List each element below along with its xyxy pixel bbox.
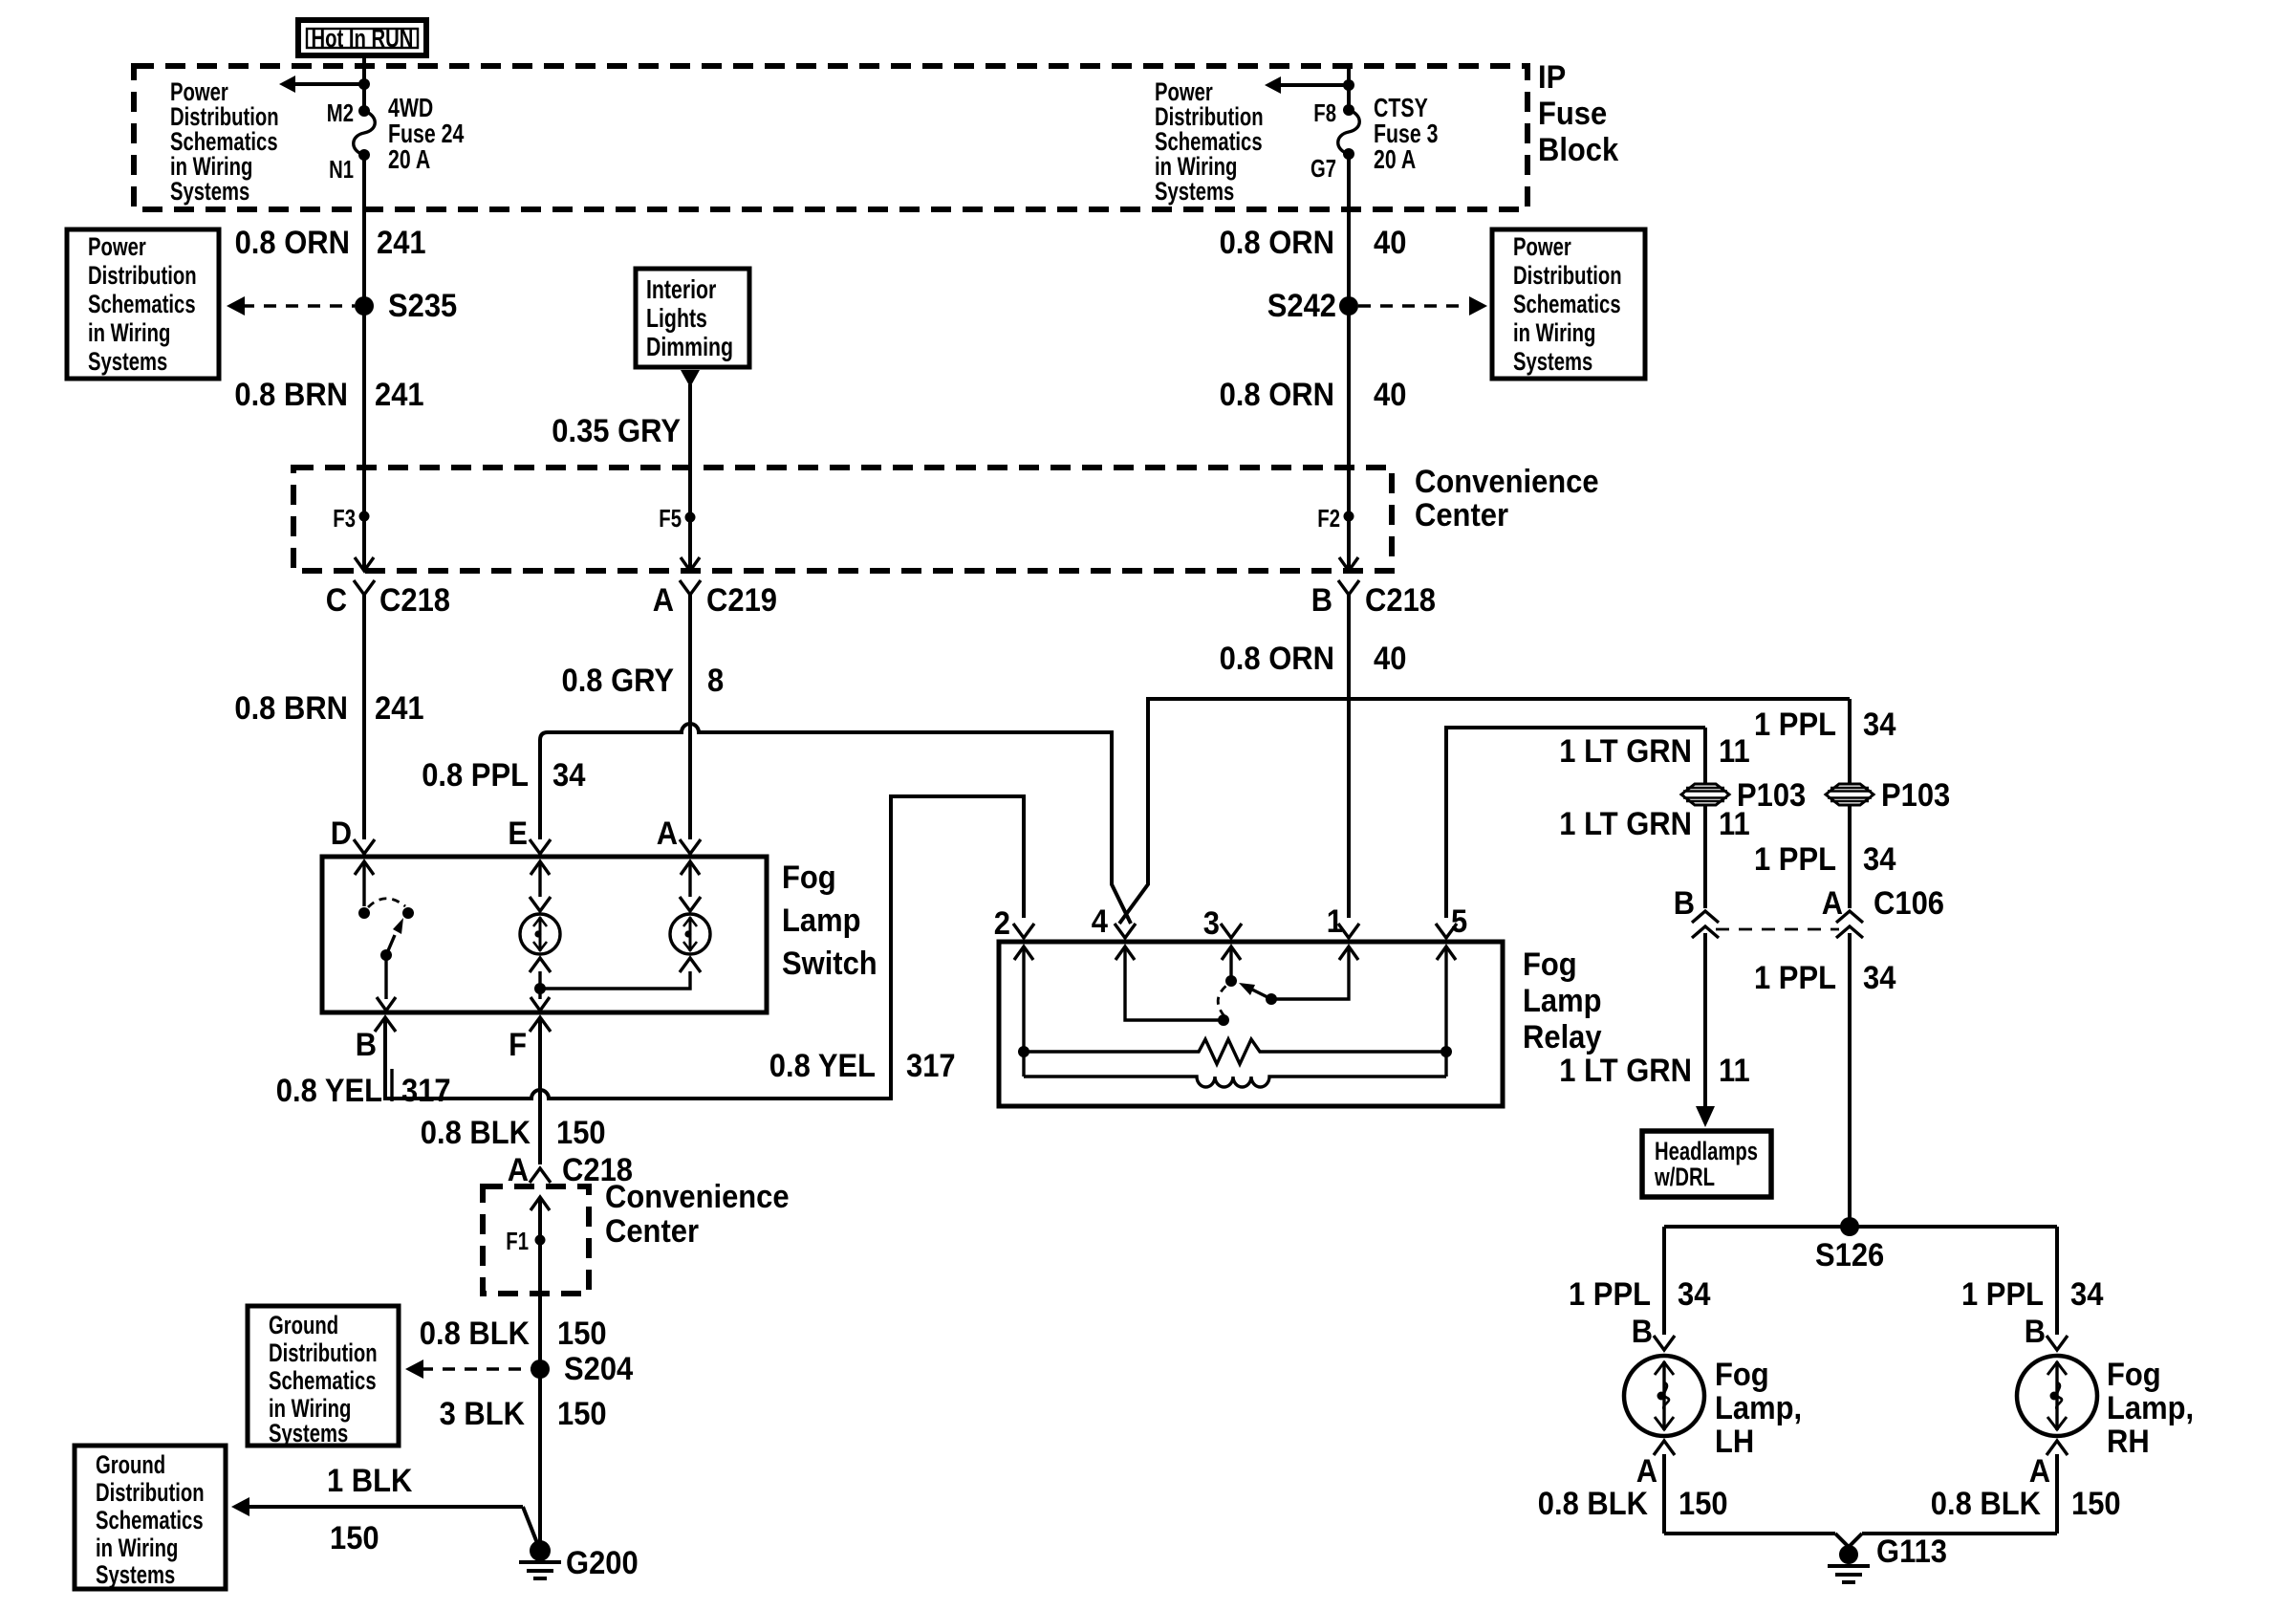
svg-text:Ground: Ground (96, 1450, 165, 1479)
svg-text:F8: F8 (1313, 98, 1336, 127)
wire fog lamp RH to ground bus (2055, 1454, 2059, 1534)
node F3 (333, 504, 369, 533)
svg-text:8: 8 (707, 663, 724, 699)
svg-text:in Wiring: in Wiring (88, 318, 170, 347)
svg-text:1 PPL: 1 PPL (1569, 1276, 1651, 1313)
svg-text:P103: P103 (1881, 777, 1950, 814)
wire C106 A down to splice S126 (1848, 933, 1852, 1227)
svg-text:150: 150 (2071, 1486, 2121, 1522)
svg-text:2: 2 (994, 905, 1010, 942)
connector pin 4 of fog lamp relay (1092, 903, 1136, 940)
svg-text:0.8 YEL: 0.8 YEL (769, 1048, 876, 1084)
switch throw contact dot (402, 907, 414, 919)
wire label 1 PPL 34 (middle) (1754, 841, 1895, 878)
svg-text:11: 11 (1719, 806, 1750, 842)
relay coil (1024, 1077, 1446, 1087)
svg-text:40: 40 (1374, 225, 1406, 261)
svg-text:S204: S204 (564, 1351, 633, 1387)
node F5 (659, 504, 695, 533)
svg-text:F2: F2 (1317, 504, 1340, 533)
wire fog lamp LH to ground bus (1662, 1454, 1666, 1534)
wire PPL from P103 to C106 A (1848, 806, 1852, 908)
svg-text:1 PPL: 1 PPL (1754, 841, 1836, 878)
wire label 1 LT GRN 11 (middle) (1559, 806, 1749, 842)
connector pin A of fog lamp LH (1636, 1441, 1675, 1490)
wire 1 LT GRN riser down to P103 (1703, 728, 1707, 783)
svg-text:Convenience: Convenience (1415, 464, 1599, 500)
svg-text:150: 150 (557, 1316, 607, 1352)
svg-text:1 PPL: 1 PPL (1754, 960, 1836, 996)
wire label 1 LT GRN 11 (upper) (1559, 733, 1749, 770)
relay armature with arrow (1239, 983, 1277, 1005)
arrow from Interior Lights Dimming (681, 370, 700, 387)
wire C218 C down to switch pin D (362, 595, 366, 839)
connector pin B of fog lamp RH (2025, 1314, 2068, 1350)
svg-text:F3: F3 (333, 504, 356, 533)
wire N1 down to S235 (362, 155, 366, 571)
wire label 0.8 BLK 150 (421, 1115, 606, 1151)
svg-text:Distribution: Distribution (1513, 261, 1622, 290)
wire label 0.8 ORN 40 (to relay) (1220, 641, 1407, 677)
svg-text:Distribution: Distribution (88, 261, 197, 290)
connector pin D of fog lamp switch (331, 816, 375, 854)
svg-text:Systems: Systems (269, 1419, 348, 1447)
svg-text:A: A (657, 816, 678, 852)
svg-text:C219: C219 (706, 582, 777, 619)
svg-text:G113: G113 (1876, 1534, 1947, 1570)
value label CTSY Fuse 3 20 A (1374, 93, 1438, 174)
wire pin F down to C218 A (538, 1017, 542, 1164)
svg-text:Fog: Fog (1715, 1357, 1769, 1393)
connector C218 pin C (326, 580, 450, 619)
connector pin 3 of fog lamp relay (1203, 905, 1242, 942)
note Power Distribution Schematics in Wiring Systems (left, in fuse block) (170, 77, 279, 206)
wire relay pin 5 up and right to LT GRN riser (1446, 728, 1705, 918)
svg-text:B: B (1311, 582, 1332, 619)
note box Power Distribution Schematics in Wiring Systems (at S242) (1492, 229, 1645, 379)
connector pin 2 of fog lamp relay (994, 905, 1034, 942)
wire 1 PPL riser down to P103 (1848, 699, 1852, 783)
svg-text:0.8 ORN: 0.8 ORN (1220, 225, 1334, 261)
note box Ground Distribution Schematics in Wiring Systems (at S204) (248, 1306, 399, 1447)
svg-text:Distribution: Distribution (96, 1478, 205, 1507)
svg-text:3 BLK: 3 BLK (440, 1396, 526, 1432)
svg-text:S235: S235 (388, 288, 457, 324)
svg-text:S126: S126 (1815, 1237, 1884, 1273)
wire label 0.8 YEL 317 (right riser) (769, 1048, 956, 1084)
arrow out of convenience center (left) (355, 557, 374, 571)
svg-text:317: 317 (906, 1048, 956, 1084)
svg-text:Lamp,: Lamp, (1715, 1390, 1802, 1426)
connector C218 pin B (1311, 580, 1436, 619)
svg-text:11: 11 (1719, 1053, 1750, 1089)
ground G113 (1828, 1534, 1947, 1582)
svg-text:N1: N1 (329, 155, 354, 184)
svg-text:150: 150 (330, 1520, 379, 1556)
connector pin B of fog lamp LH (1632, 1314, 1675, 1350)
connector pin F of fog lamp switch (below box) (509, 1017, 551, 1063)
svg-text:34: 34 (1863, 841, 1895, 878)
label box Hot In RUN (298, 20, 426, 55)
wire arm to pin B (inside), arrow down (377, 955, 396, 1011)
svg-text:0.8 PPL: 0.8 PPL (422, 757, 529, 794)
svg-text:34: 34 (1863, 707, 1895, 743)
svg-text:1 LT GRN: 1 LT GRN (1559, 1053, 1692, 1089)
connector pin 1 of fog lamp relay (1327, 903, 1359, 940)
svg-text:0.8 YEL: 0.8 YEL (276, 1073, 382, 1109)
svg-text:G200: G200 (566, 1545, 639, 1581)
wire from Hot In RUN into fuse block (362, 55, 366, 111)
wire S126 right branch down (2055, 1227, 2059, 1335)
convenience center dashed box (293, 468, 1392, 571)
svg-text:241: 241 (377, 225, 426, 261)
component label Convenience Center (ground path) (605, 1179, 790, 1250)
svg-text:0.8 BRN: 0.8 BRN (234, 690, 348, 727)
fog lamp LH (1624, 1356, 1802, 1460)
relay pin 1 terminal arrow (1339, 946, 1358, 960)
dashed reference arrow to S242 box (1358, 296, 1487, 315)
svg-text:1 PPL: 1 PPL (1754, 707, 1836, 743)
svg-text:0.8 BLK: 0.8 BLK (420, 1316, 531, 1352)
connector pin A of fog lamp RH (2029, 1441, 2068, 1490)
svg-text:317: 317 (401, 1073, 451, 1109)
svg-text:34: 34 (2070, 1276, 2103, 1313)
svg-text:Lamp: Lamp (1523, 983, 1602, 1019)
svg-text:A: A (508, 1152, 529, 1188)
svg-text:Fog: Fog (1523, 946, 1577, 983)
wire 0.35 GRY down to convenience center F5 (688, 384, 692, 571)
svg-text:in Wiring: in Wiring (96, 1534, 178, 1562)
indicator lamp (pin A branch) terminal arrow (680, 861, 701, 911)
svg-text:4: 4 (1092, 903, 1108, 940)
wire 1 BLK 150 to G200 (231, 1497, 539, 1548)
svg-text:0.8 ORN: 0.8 ORN (1220, 641, 1334, 677)
indicator lamp at pin E (520, 914, 560, 954)
connector C219 pin A (653, 580, 777, 619)
arrow to power distribution (right side of fuse block) (1265, 76, 1354, 94)
splice S126 (1815, 1217, 1884, 1273)
ground G200 (519, 1540, 639, 1581)
connector C106 pin A (1822, 885, 1944, 938)
svg-text:1 LT GRN: 1 LT GRN (1559, 806, 1692, 842)
svg-text:Schematics: Schematics (269, 1366, 377, 1395)
svg-text:in Wiring: in Wiring (1513, 318, 1595, 347)
svg-text:241: 241 (375, 690, 424, 727)
wire S126 branch to fog lamps (1662, 1227, 1666, 1335)
svg-text:Dimming: Dimming (646, 332, 733, 361)
component label Fog Lamp Relay (1523, 946, 1602, 1055)
switch contact D terminal (inside) (355, 861, 374, 919)
connector pin A of fog lamp switch (657, 816, 701, 854)
svg-text:0.8 BRN: 0.8 BRN (234, 377, 348, 413)
svg-text:Convenience: Convenience (605, 1179, 790, 1215)
note box Ground Distribution Schematics in Wiring Systems (at G200) (75, 1446, 226, 1589)
svg-text:Power: Power (1513, 232, 1571, 261)
arrow out of convenience center (right) (1339, 557, 1358, 571)
svg-text:5: 5 (1451, 903, 1467, 940)
svg-text:Switch: Switch (782, 946, 877, 982)
arrow out of convenience center (middle) (681, 557, 700, 571)
wire label 3 BLK 150 (440, 1396, 607, 1432)
svg-text:0.8 BLK: 0.8 BLK (421, 1115, 531, 1151)
svg-text:Fog: Fog (782, 859, 836, 896)
arrow into Headlamps w/DRL (1696, 1106, 1715, 1127)
svg-text:Schematics: Schematics (96, 1506, 204, 1534)
svg-text:0.8 BLK: 0.8 BLK (1538, 1486, 1649, 1522)
splice S204 (531, 1351, 633, 1387)
svg-text:G7: G7 (1310, 154, 1336, 183)
component box Headlamps w/DRL (1642, 1131, 1771, 1197)
wire C219 A down to switch pin A (688, 595, 692, 839)
svg-text:C218: C218 (1365, 582, 1436, 619)
svg-text:40: 40 (1374, 377, 1406, 413)
svg-text:Lamp: Lamp (782, 903, 861, 939)
wire 1 PPL from relay pin 4 up and right to P103 riser (1119, 699, 1850, 924)
wire label 1 PPL 34 (upper) (1754, 707, 1895, 743)
svg-text:C218: C218 (379, 582, 450, 619)
indicator lamp (pin E branch) terminal arrow (530, 861, 551, 911)
svg-text:Headlamps: Headlamps (1655, 1137, 1758, 1165)
svg-text:Schematics: Schematics (1513, 290, 1621, 318)
svg-text:C: C (326, 582, 347, 619)
dashed travel arc of switch (368, 899, 405, 907)
svg-text:Systems: Systems (170, 177, 249, 206)
dashed reference arrow to S235 box (227, 296, 355, 315)
wire label 1 LT GRN 11 (lower) (1559, 1053, 1749, 1089)
lamp E bottom connector and wire to junction (530, 958, 551, 994)
dashed travel arc of relay contact (1218, 985, 1227, 1016)
indicator lamp at pin A (670, 914, 710, 954)
svg-text:150: 150 (556, 1115, 606, 1151)
svg-text:Schematics: Schematics (88, 290, 196, 318)
wire label 0.8 GRY 8 (562, 663, 725, 699)
wire through convenience center F1 down to S204 (538, 1197, 542, 1551)
connector pin 5 of fog lamp relay (1436, 903, 1467, 940)
wire label 0.8 BRN 241 (lower) (234, 690, 423, 727)
wire G7 down through convenience center to C218 B (1347, 154, 1351, 571)
note box Power Distribution Schematics in Wiring Systems (at S235) (67, 229, 219, 379)
svg-text:w/DRL: w/DRL (1654, 1163, 1715, 1191)
svg-text:Systems: Systems (88, 347, 167, 376)
svg-text:B: B (1632, 1314, 1653, 1350)
node F2 (1317, 504, 1354, 533)
svg-text:0.8 ORN: 0.8 ORN (1220, 377, 1334, 413)
wire label 1 PPL 34 (RH) (1961, 1276, 2103, 1313)
svg-text:Systems: Systems (1155, 177, 1234, 206)
wire 0.8 YEL from pin B right to relay pin 2 riser, hops over BLK wire (385, 796, 1024, 1099)
wire top of CTSY fuse (1347, 66, 1351, 110)
svg-text:241: 241 (375, 377, 424, 413)
svg-text:1 LT GRN: 1 LT GRN (1559, 733, 1692, 770)
svg-text:C106: C106 (1874, 885, 1944, 922)
svg-text:F: F (509, 1027, 527, 1063)
svg-text:1 BLK: 1 BLK (327, 1463, 413, 1499)
svg-text:150: 150 (1679, 1486, 1728, 1522)
IP fuse block dashed box (134, 66, 1527, 209)
wire label 0.8 ORN 40 (below S242) (1220, 377, 1407, 413)
svg-text:20 A: 20 A (1374, 144, 1416, 174)
svg-text:Distribution: Distribution (269, 1338, 378, 1367)
fuse 4WD Fuse 24 20 A (M2-N1) (354, 105, 376, 161)
svg-text:34: 34 (552, 757, 585, 794)
svg-text:0.35 GRY: 0.35 GRY (552, 413, 681, 449)
wire junction to pin F (inside), arrow down (531, 989, 550, 1011)
svg-text:1: 1 (1327, 903, 1343, 940)
value label 4WD Fuse 24 20 A (388, 93, 465, 174)
arrow into convenience center (up) (531, 1197, 550, 1210)
svg-text:0.8 BLK: 0.8 BLK (1931, 1486, 2042, 1522)
relay pin 4 terminal arrow and wire to contact (1116, 946, 1229, 1026)
connector pin E of fog lamp switch (508, 816, 551, 854)
svg-text:LH: LH (1715, 1424, 1754, 1460)
svg-text:Systems: Systems (1513, 347, 1592, 376)
svg-text:Fuse: Fuse (1538, 96, 1607, 132)
dashed connector tie line C106 (1716, 928, 1839, 931)
svg-text:40: 40 (1374, 641, 1406, 677)
connector C218 pin A (ground path) (508, 1152, 633, 1188)
wire ground bus to G113 (1664, 1532, 2057, 1535)
svg-text:B: B (1674, 885, 1695, 922)
lamp A bottom connector wire joining lamp E junction (540, 958, 701, 989)
switch arm with arrow (380, 918, 403, 961)
wire label 1 PPL 34 (to S126) (1754, 960, 1895, 996)
svg-text:Fog: Fog (2107, 1357, 2161, 1393)
wire from switch pin E up and right to relay pin 4 (0.8 PPL), hops over GRY wire (540, 724, 1131, 924)
wire label 0.8 YEL 317 (at pin B) (276, 1069, 451, 1109)
svg-text:150: 150 (557, 1396, 607, 1432)
svg-text:S242: S242 (1267, 288, 1336, 324)
svg-text:0.8 GRY: 0.8 GRY (562, 663, 675, 699)
svg-text:B: B (356, 1027, 377, 1063)
wire label 0.8 ORN 40 (1220, 225, 1407, 261)
component label IP Fuse Block (1538, 59, 1618, 168)
wire label 0.8 BLK 150 (LH) (1538, 1486, 1728, 1522)
svg-text:D: D (331, 816, 352, 852)
svg-text:34: 34 (1863, 960, 1895, 996)
convenience center dashed box (ground path) (483, 1186, 589, 1294)
svg-text:1 PPL: 1 PPL (1961, 1276, 2044, 1313)
wire label 1 PPL 34 (LH) (1569, 1276, 1710, 1313)
wire LT GRN from P103 to C106 B (1703, 806, 1707, 908)
relay resistor (1024, 1039, 1447, 1064)
component box Fog Lamp Switch (322, 857, 767, 1012)
fuse CTSY Fuse 3 20 A (F8-G7) (1338, 104, 1360, 160)
connector C106 pin B (1674, 885, 1719, 938)
svg-text:Lights: Lights (646, 303, 707, 333)
svg-text:F1: F1 (506, 1227, 529, 1255)
component label Convenience Center (1415, 464, 1599, 533)
svg-text:11: 11 (1719, 733, 1750, 770)
fog lamp RH (2017, 1356, 2194, 1460)
svg-text:IP: IP (1538, 59, 1566, 96)
note Power Distribution Schematics in Wiring Systems (right, in fuse block) (1155, 77, 1264, 206)
svg-text:20 A: 20 A (388, 144, 430, 174)
relay pin 3 terminal arrow and contact (1222, 946, 1241, 987)
svg-text:Block: Block (1538, 132, 1618, 168)
wire S126 horizontal bus (1664, 1225, 2057, 1229)
svg-text:A: A (653, 582, 674, 619)
component label Fog Lamp Switch (782, 859, 877, 982)
connector pin B of fog lamp switch (below box) (356, 1017, 396, 1063)
svg-text:RH: RH (2107, 1424, 2150, 1460)
svg-text:0.8 ORN: 0.8 ORN (235, 225, 350, 261)
component box Fog Lamp Relay (999, 942, 1503, 1106)
svg-text:Interior: Interior (646, 274, 716, 304)
svg-text:3: 3 (1203, 905, 1220, 942)
wire label 0.8 ORN 241 (235, 225, 426, 261)
svg-text:A: A (1822, 885, 1843, 922)
svg-text:Systems: Systems (96, 1560, 175, 1589)
node F1 (506, 1227, 545, 1255)
relay pin 2 terminal arrow and wire to resistor/coil (1014, 946, 1033, 1077)
wire label 0.8 BLK 150 (RH) (1931, 1486, 2121, 1522)
component box Interior Lights Dimming (636, 269, 749, 367)
grommet P103 (PPL wire) (1826, 777, 1950, 814)
svg-text:M2: M2 (327, 98, 354, 127)
svg-text:Ground: Ground (269, 1311, 338, 1339)
wire label 0.8 PPL 34 (422, 757, 585, 794)
wire C218 B down to relay pin 1 (1347, 595, 1351, 918)
wire label 0.8 BRN 241 (234, 377, 423, 413)
svg-text:F5: F5 (659, 504, 682, 533)
relay pin 5 terminal arrow and wire (1437, 946, 1456, 1077)
splice S235 (355, 288, 457, 324)
svg-text:A: A (1636, 1453, 1657, 1490)
svg-text:B: B (2025, 1314, 2046, 1350)
grommet P103 (LT GRN wire) (1681, 777, 1806, 814)
wire C106 B down to headlamps arrow (1703, 933, 1707, 1107)
svg-text:E: E (508, 816, 528, 852)
svg-text:Center: Center (605, 1213, 699, 1250)
wire armature to pin 1 (inside relay) (1271, 946, 1349, 999)
svg-text:Relay: Relay (1523, 1019, 1602, 1055)
svg-text:Power: Power (88, 232, 146, 261)
svg-text:Center: Center (1415, 497, 1508, 533)
svg-text:Lamp,: Lamp, (2107, 1390, 2194, 1426)
svg-text:A: A (2029, 1453, 2050, 1490)
splice S242 (1267, 288, 1358, 324)
dashed reference arrow to S204 box (405, 1360, 531, 1379)
arrow to power distribution (left) (279, 76, 370, 93)
wire label 0.8 BLK 150 (below convenience center) (420, 1316, 607, 1352)
svg-text:34: 34 (1678, 1276, 1710, 1313)
svg-text:Hot In RUN: Hot In RUN (312, 24, 414, 53)
